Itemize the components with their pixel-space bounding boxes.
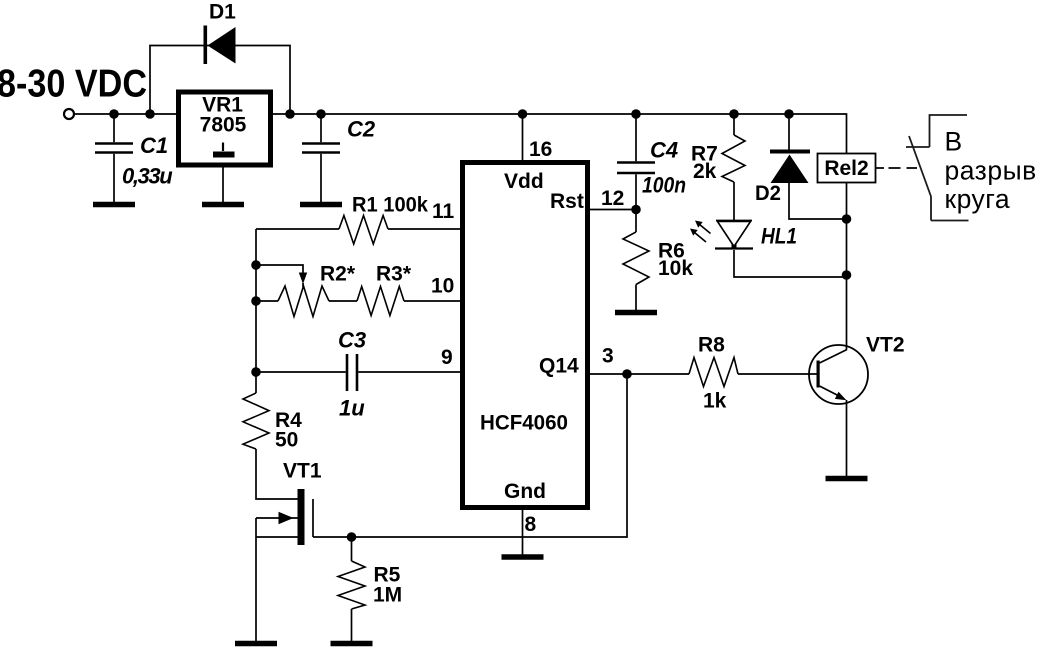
svg-text:50: 50 bbox=[275, 429, 298, 452]
wire pin11 R1 bbox=[256, 228, 460, 230]
svg-text:VT2: VT2 bbox=[866, 334, 905, 357]
capacitor C3 bbox=[347, 354, 357, 391]
switch contact bbox=[906, 114, 969, 220]
svg-text:8-30 VDC: 8-30 VDC bbox=[0, 63, 147, 106]
ground C1 bbox=[93, 202, 135, 208]
svg-text:C1: C1 bbox=[140, 133, 168, 158]
svg-text:9: 9 bbox=[441, 346, 453, 369]
svg-text:C4: C4 bbox=[650, 138, 678, 163]
resistor R6 bbox=[635, 210, 637, 233]
HL1 light arrows bbox=[690, 221, 711, 243]
svg-text:12: 12 bbox=[601, 187, 624, 210]
LED HL1 bbox=[715, 221, 847, 278]
svg-text:0,33u: 0,33u bbox=[122, 164, 173, 189]
svg-text:1u: 1u bbox=[339, 396, 365, 421]
wire D1 branch bbox=[150, 46, 290, 115]
svg-text:1M: 1M bbox=[373, 584, 402, 607]
label В разрыв круга bbox=[945, 127, 1037, 215]
ground VT2 bbox=[826, 476, 868, 482]
ground pin8 bbox=[502, 554, 544, 560]
wire dashed to switch bbox=[876, 167, 917, 169]
svg-text:1k: 1k bbox=[703, 390, 727, 413]
wire R2 wiper link bbox=[256, 265, 303, 274]
resistor R7 bbox=[733, 114, 735, 135]
transistor VT2 bbox=[809, 345, 868, 404]
svg-text:3: 3 bbox=[602, 345, 614, 368]
ground VR1 bbox=[202, 202, 244, 208]
svg-text:HCF4060: HCF4060 bbox=[480, 412, 568, 435]
svg-text:Rel2: Rel2 bbox=[824, 157, 868, 180]
svg-text:10k: 10k bbox=[658, 257, 693, 280]
svg-text:Q14: Q14 bbox=[539, 355, 579, 378]
svg-text:R3*: R3* bbox=[376, 263, 412, 286]
ground C2 bbox=[300, 202, 342, 208]
svg-text:D1: D1 bbox=[209, 1, 236, 24]
svg-text:11: 11 bbox=[432, 200, 455, 223]
wire pin12 bbox=[590, 209, 636, 211]
relay Rel2 bbox=[818, 154, 876, 183]
wire top rail right of VR1 bbox=[273, 114, 847, 350]
diode D2 bbox=[788, 114, 790, 150]
wire pin8 stub bbox=[522, 510, 524, 555]
svg-text:Gnd: Gnd bbox=[504, 480, 546, 503]
svg-text:Vdd: Vdd bbox=[504, 170, 544, 193]
wire left rail bbox=[255, 229, 257, 393]
svg-text:7805: 7805 bbox=[200, 114, 247, 137]
capacitor C2 bbox=[320, 114, 322, 142]
svg-text:разрыв: разрыв bbox=[945, 156, 1037, 186]
voltage regulator VR1 bbox=[179, 92, 271, 165]
svg-text:C2: C2 bbox=[347, 117, 376, 142]
svg-text:VT1: VT1 bbox=[283, 460, 322, 483]
svg-text:В: В bbox=[945, 127, 963, 157]
ground R5 bbox=[331, 641, 373, 647]
wire pin9 C3 bbox=[256, 371, 460, 373]
resistor R3 bbox=[357, 287, 404, 316]
wire VT2 emitter bbox=[846, 400, 848, 476]
capacitor C4 bbox=[635, 114, 637, 161]
svg-text:HL1: HL1 bbox=[761, 224, 797, 249]
svg-text:C3: C3 bbox=[338, 328, 366, 353]
svg-text:16: 16 bbox=[529, 138, 552, 161]
IC U1 HCF4060 bbox=[463, 163, 588, 508]
resistor R5 bbox=[351, 537, 353, 561]
svg-text:8: 8 bbox=[525, 513, 537, 536]
svg-text:R1 100k: R1 100k bbox=[352, 194, 428, 217]
resistor R2 bbox=[278, 286, 329, 317]
capacitor C1 bbox=[113, 114, 115, 142]
resistor R4 bbox=[243, 393, 269, 449]
resistor R1 bbox=[339, 216, 388, 245]
wire VT1 gate-source down bbox=[255, 518, 257, 641]
svg-text:Rst: Rst bbox=[550, 190, 584, 213]
R2 wiper arrow bbox=[299, 273, 307, 285]
wire pin3 bbox=[590, 373, 627, 375]
wire pin10 bbox=[256, 300, 460, 302]
ground R6 bbox=[615, 310, 657, 316]
wire pin16 stub bbox=[522, 114, 524, 160]
svg-text:10: 10 bbox=[431, 275, 454, 298]
wire VR1 gnd stub bbox=[222, 167, 224, 202]
diode D1 bbox=[204, 26, 236, 65]
svg-text:R2*: R2* bbox=[320, 263, 356, 286]
svg-text:100n: 100n bbox=[642, 173, 686, 198]
svg-text:2k: 2k bbox=[693, 160, 717, 183]
svg-text:R8: R8 bbox=[698, 334, 725, 357]
wire main top rail bbox=[75, 113, 177, 115]
input terminal bbox=[64, 109, 74, 119]
wire VT1 source to Q14 column bbox=[313, 374, 627, 537]
svg-text:D2: D2 bbox=[755, 182, 781, 205]
svg-text:круга: круга bbox=[945, 184, 1011, 214]
resistor R8 bbox=[627, 373, 817, 375]
ground VT1 bbox=[235, 641, 277, 647]
transistor VT1 bbox=[256, 449, 313, 545]
